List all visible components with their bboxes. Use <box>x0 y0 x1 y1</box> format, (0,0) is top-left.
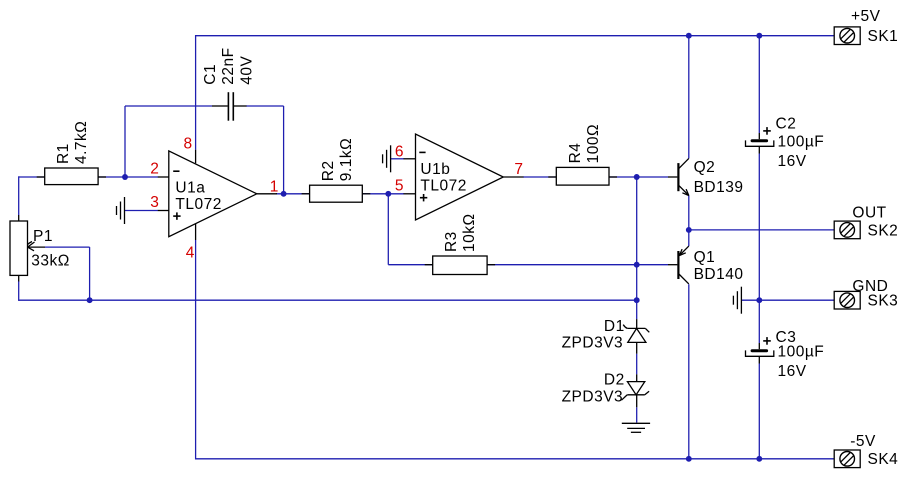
pin stub R2 left <box>302 193 310 195</box>
svg-text:33kΩ: 33kΩ <box>31 253 70 270</box>
pin stub C1 right <box>234 105 247 107</box>
pin stub U1a pin 4 <box>195 223 197 240</box>
wire -5V bottom rail <box>196 458 835 460</box>
label P1 <box>28 228 70 270</box>
ground at U1b pin 6 <box>383 145 391 172</box>
wire Q1 base <box>637 264 668 266</box>
label D2 <box>562 371 625 405</box>
connector SK1 <box>834 27 860 45</box>
svg-text:D2: D2 <box>604 371 625 388</box>
pin number U1b 7 <box>514 161 523 178</box>
resistor R4 <box>556 167 609 185</box>
pin stub C1 left <box>212 105 228 107</box>
label -5V / SK4 <box>850 433 898 468</box>
wire C2 to GND <box>758 154 760 301</box>
junction P1 wiper/GND rail <box>87 297 93 303</box>
wire +5V top rail <box>196 35 835 37</box>
resistor R3 <box>433 256 487 275</box>
connector SK2 <box>834 221 860 239</box>
wire +5V to C2 <box>758 36 760 133</box>
wire +5V to Q2 collector <box>688 36 690 159</box>
label GND / SK3 <box>852 278 898 310</box>
svg-text:3: 3 <box>150 194 159 211</box>
pin stub C3 bottom <box>758 356 760 363</box>
zener diode D1 <box>623 325 649 343</box>
ground at U1a pin 3 <box>117 197 125 224</box>
svg-text:4: 4 <box>186 245 195 262</box>
svg-text:16V: 16V <box>778 153 807 170</box>
label U1b minus <box>419 151 425 153</box>
junction OUT node <box>686 227 692 233</box>
svg-text:16V: 16V <box>778 363 807 380</box>
wire U1b pin 7 to R4 <box>523 176 556 178</box>
pin stub C2 top <box>758 133 760 139</box>
wire Q2 emitter to OUT node <box>688 196 690 230</box>
svg-text:SK2: SK2 <box>868 222 899 239</box>
svg-text:7: 7 <box>514 161 523 178</box>
wire P1 bottom to GND rail <box>18 281 20 301</box>
svg-text:Q2: Q2 <box>694 159 716 176</box>
svg-text:ZPD3V3: ZPD3V3 <box>562 335 624 352</box>
wire V+ column (top rail to U1a pin 8) <box>195 35 197 150</box>
junction R3/Q1 base/node <box>634 262 640 268</box>
wire C3 to -5V rail <box>758 364 760 459</box>
wire U1a output to R2 <box>276 193 310 195</box>
pin stub D1 top <box>636 319 638 328</box>
label R2 <box>320 138 355 181</box>
wire base node column <box>636 177 638 300</box>
pin stub R3 right <box>487 264 495 266</box>
junction R4/Q2 base/node <box>634 174 640 180</box>
pin number U1a 4 <box>186 245 195 262</box>
wire ground to U1a pin 3 <box>125 210 158 212</box>
pin stub D2 bottom <box>636 395 638 408</box>
wire R4 right to node <box>609 176 668 178</box>
junction R2/pin5/feedback <box>385 191 391 197</box>
wire P1 wiper to GND rail <box>45 247 90 300</box>
pin stub R4 right <box>609 176 617 178</box>
connector SK3 <box>834 291 860 309</box>
capacitor C3 <box>746 349 774 356</box>
label R3 <box>443 213 478 252</box>
svg-text:P1: P1 <box>33 228 53 245</box>
label C2 <box>776 115 825 170</box>
svg-text:R2: R2 <box>320 160 337 181</box>
wire R2 to U1b pin 5 <box>362 193 404 195</box>
pin number U1b 5 <box>395 178 404 195</box>
svg-text:BD139: BD139 <box>694 179 744 196</box>
capacitor C2 <box>746 139 774 146</box>
svg-text:D1: D1 <box>604 318 625 335</box>
pin stub U1a pin 8 <box>195 150 197 164</box>
svg-text:ZPD3V3: ZPD3V3 <box>562 389 624 406</box>
svg-text:5: 5 <box>395 178 404 195</box>
svg-text:8: 8 <box>184 136 193 153</box>
capacitor C1 <box>228 92 233 121</box>
pin number U1a 8 <box>184 136 193 153</box>
transistor Q1 <box>678 246 688 284</box>
wire D2 to ground <box>636 407 638 422</box>
svg-text:TL072: TL072 <box>420 178 466 195</box>
label R4 <box>567 124 602 163</box>
wire C1 left leg <box>125 106 212 177</box>
op-amp U1b <box>416 134 504 220</box>
svg-text:9.1kΩ: 9.1kΩ <box>338 138 355 181</box>
wire R1 left to P1 top <box>19 176 45 215</box>
svg-text:SK1: SK1 <box>868 28 899 45</box>
junction top rail/Q2 collector <box>686 33 692 39</box>
svg-text:+5V: +5V <box>851 8 881 25</box>
svg-text:TL072: TL072 <box>175 196 221 213</box>
svg-text:2: 2 <box>150 160 159 177</box>
wire OUT node to Q1 emitter <box>688 230 690 246</box>
svg-text:R3: R3 <box>443 231 460 252</box>
label U1b <box>420 161 466 195</box>
svg-text:R1: R1 <box>55 143 72 164</box>
label U1a <box>175 179 221 213</box>
wire OUT node to SK2 <box>689 229 834 231</box>
svg-text:SK3: SK3 <box>868 293 899 310</box>
junction U1a out/C1 <box>281 191 287 197</box>
pin stub R4 left <box>548 176 556 178</box>
svg-text:C1: C1 <box>202 64 219 85</box>
svg-text:100Ω: 100Ω <box>585 124 602 163</box>
svg-text:SK4: SK4 <box>868 451 899 468</box>
wire R3 right to node <box>487 264 637 266</box>
pin stub D2 top <box>636 374 638 381</box>
label D1 <box>562 318 625 351</box>
pin stub Q1 base <box>668 264 677 266</box>
svg-text:1: 1 <box>270 179 279 196</box>
pin stub D1 bottom <box>636 342 638 353</box>
label OUT / SK2 <box>852 204 898 239</box>
svg-text:10kΩ: 10kΩ <box>461 213 478 252</box>
connector SK4 <box>834 450 860 468</box>
label R1 <box>55 121 90 164</box>
label Q1 <box>694 249 744 283</box>
svg-text:OUT: OUT <box>852 204 886 221</box>
pin stub C2 bottom <box>758 146 760 153</box>
pin stub Q2 base <box>668 176 677 178</box>
ground at SK3 <box>733 287 741 314</box>
wire C1 right leg <box>246 106 284 194</box>
svg-text:Q1: Q1 <box>694 249 716 266</box>
pin stub U1a pin 3 <box>158 210 169 212</box>
pin number U1b 6 <box>395 144 404 161</box>
pin stub U1b pin 7 <box>503 176 523 178</box>
transistor Q2 <box>678 158 688 195</box>
wire pin5 feedback down <box>387 194 389 265</box>
pin stub R3 left <box>425 264 433 266</box>
pin stub R1 right <box>98 176 106 178</box>
wire ground to U1b pin 6 <box>391 158 404 160</box>
wire D1 to D2 <box>636 354 638 375</box>
pin number U1a 2 <box>150 160 159 177</box>
label U1a minus <box>173 170 179 172</box>
label Q2 <box>694 159 744 196</box>
pin number U1a 3 <box>150 194 159 211</box>
ground below D2 <box>622 423 650 432</box>
wire GND to C3 <box>758 300 760 343</box>
junction GND rail/zener node <box>634 297 640 303</box>
pin stub P1 bottom <box>18 275 20 281</box>
op-amp U1a <box>169 151 257 237</box>
pin stub U1a pin 1 <box>257 193 277 195</box>
pin number U1a 1 <box>270 179 279 196</box>
svg-text:22nF: 22nF <box>220 47 237 84</box>
wire Q1 collector to -5V rail <box>688 284 690 459</box>
label C1 <box>202 47 256 84</box>
pin stub C3 top <box>758 343 760 349</box>
pin stub U1b pin 6 <box>404 158 416 160</box>
resistor R2 <box>310 185 363 202</box>
pin stub U1a pin 2 <box>158 176 169 178</box>
svg-text:U1b: U1b <box>420 161 450 178</box>
wire feedback to R3 left <box>388 264 432 266</box>
junction bottom rail/Q1 collector <box>686 456 692 462</box>
svg-text:-5V: -5V <box>850 433 876 450</box>
svg-text:C2: C2 <box>776 115 797 132</box>
svg-text:6: 6 <box>395 144 404 161</box>
wire GND rail right <box>742 299 834 301</box>
junction C1/R1/pin2 <box>122 174 128 180</box>
svg-text:40V: 40V <box>239 55 256 84</box>
label C3 plus <box>763 337 771 345</box>
pin stub U1b pin 5 <box>404 193 416 195</box>
wire R1 right to U1a pin 2 <box>98 176 158 178</box>
potentiometer P1 <box>10 221 45 275</box>
junction bottom rail/C3 <box>756 456 762 462</box>
pin stub R1 left <box>37 176 45 178</box>
pin stub P1 top <box>18 215 20 221</box>
resistor R1 <box>45 168 98 185</box>
svg-text:4.7kΩ: 4.7kΩ <box>73 121 90 164</box>
svg-text:BD140: BD140 <box>694 266 744 283</box>
junction GND/C2/C3 <box>756 297 762 303</box>
svg-text:100µF: 100µF <box>778 133 825 150</box>
label U1b plus <box>420 194 427 201</box>
wire node to D1 <box>636 300 638 319</box>
label C3 <box>776 329 825 380</box>
svg-text:100µF: 100µF <box>778 343 825 360</box>
label +5V / SK1 <box>851 8 898 45</box>
label C2 plus <box>763 127 771 135</box>
pin stub R2 right <box>362 193 370 195</box>
svg-text:R4: R4 <box>567 143 584 164</box>
junction top rail/C2 <box>756 33 762 39</box>
zener diode D2 <box>621 382 649 401</box>
wire U1a pin 4 to -5V rail <box>195 240 197 460</box>
wire GND rail left <box>19 299 637 301</box>
label U1a plus <box>173 212 180 219</box>
svg-text:U1a: U1a <box>175 179 205 196</box>
